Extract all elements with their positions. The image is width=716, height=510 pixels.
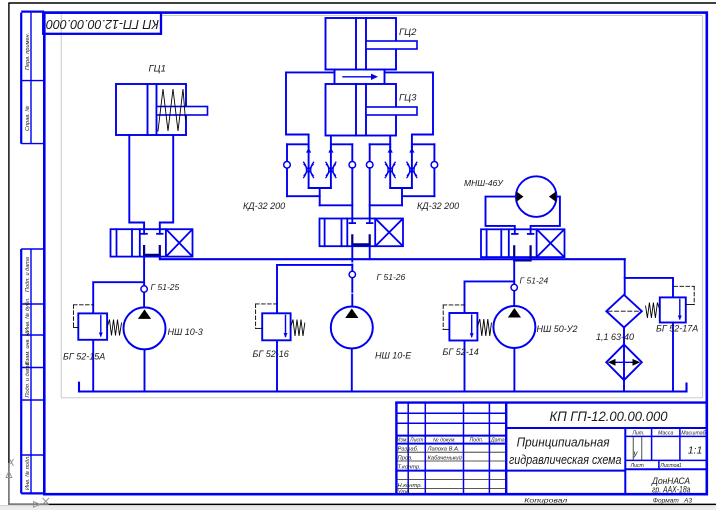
svg-text:Лапоха В.А.: Лапоха В.А. bbox=[427, 447, 460, 453]
svg-text:Г 51-24: Г 51-24 bbox=[520, 276, 549, 286]
svg-text:НШ 50-У2: НШ 50-У2 bbox=[537, 324, 578, 334]
node Г 51-26 bbox=[349, 271, 355, 277]
wire: middle valve left riser bbox=[351, 168, 353, 219]
filter 1,1 63-40 bbox=[606, 295, 642, 328]
wire: valve3 to pump НШ 50-У2 bbox=[513, 257, 515, 306]
wire: right loop from passage bbox=[385, 72, 434, 147]
wire: pump НШ 50-У2 to tank line bbox=[513, 348, 515, 392]
svg-text:Подп. и дата: Подп. и дата bbox=[25, 362, 31, 397]
svg-text:1: 1 bbox=[679, 463, 682, 469]
node circle on right block left line bbox=[366, 162, 373, 169]
svg-text:Г 51-26: Г 51-26 bbox=[377, 272, 406, 282]
svg-text:Подп. и дата: Подп. и дата bbox=[25, 257, 31, 292]
wire: valve2 to pump НШ 10-Е bbox=[351, 246, 353, 306]
relief valve БГ 52-16 bbox=[262, 265, 352, 392]
svg-text:Разраб.: Разраб. bbox=[398, 447, 419, 453]
svg-text:МНШ-46У: МНШ-46У bbox=[464, 178, 504, 188]
pump НШ 10-3 bbox=[124, 307, 166, 349]
wire: ГЦ1 right port to valve 1 bbox=[160, 135, 173, 229]
throttle symbols bbox=[385, 162, 417, 177]
svg-text:Масштаб: Масштаб bbox=[681, 430, 706, 436]
node circle on right block right line bbox=[431, 162, 438, 169]
svg-text:ГЦ2: ГЦ2 bbox=[399, 27, 417, 38]
svg-text:Формат: Формат bbox=[653, 498, 680, 505]
svg-text:КД-32 200: КД-32 200 bbox=[243, 201, 285, 211]
UCS icon bbox=[6, 459, 49, 507]
svg-text:КП ГП-12.00.00.000: КП ГП-12.00.00.000 bbox=[46, 17, 159, 31]
svg-text:гидравлическая схема: гидравлическая схема bbox=[509, 452, 622, 467]
passage between ГЦ2 and ГЦ3 with flow arrow bbox=[335, 70, 385, 85]
TITLE BLOCK bbox=[395, 403, 707, 505]
directional valve 1 (left) bbox=[111, 229, 193, 256]
svg-text:Дата: Дата bbox=[490, 437, 505, 443]
svg-text:БГ 52-17А: БГ 52-17А bbox=[656, 324, 698, 334]
check valve arrows bbox=[388, 148, 393, 153]
svg-text:гр. ААХ-18а: гр. ААХ-18а bbox=[652, 485, 691, 495]
svg-text:ГЦ1: ГЦ1 bbox=[149, 64, 166, 75]
relief valve БГ 52-17А bbox=[660, 297, 686, 391]
svg-text:Принципиальная: Принципиальная bbox=[517, 435, 610, 450]
gray content box bbox=[61, 14, 702, 398]
svg-text:№ докум.: № докум. bbox=[433, 437, 456, 443]
wire: branch to БГ 52-17А bbox=[625, 278, 673, 298]
wire: ГЦ3 right port down bbox=[389, 136, 391, 148]
svg-text:ГЦ3: ГЦ3 bbox=[399, 93, 417, 104]
wire: pump НШ 10-Е to tank line bbox=[351, 349, 353, 392]
svg-text:Кабаченький: Кабаченький bbox=[428, 454, 463, 461]
wire: middle valve right riser bbox=[369, 168, 371, 219]
cylinder ГЦ2 bbox=[326, 18, 418, 70]
svg-text:БГ 52-14: БГ 52-14 bbox=[443, 347, 479, 357]
check valve arrows bbox=[306, 148, 311, 153]
svg-text:1:1: 1:1 bbox=[688, 445, 703, 457]
wire: main line branch to filter bbox=[624, 259, 626, 295]
svg-text:БГ 52-16: БГ 52-16 bbox=[253, 349, 289, 359]
node circle on left block left line bbox=[284, 162, 291, 169]
svg-text:Пров.: Пров. bbox=[398, 455, 413, 461]
directional valve 3 (right) bbox=[481, 229, 565, 257]
cylinder ГЦ1 bbox=[116, 84, 208, 135]
svg-text:КД-32 200: КД-32 200 bbox=[417, 201, 459, 211]
relief valve БГ 52-14 bbox=[449, 281, 514, 391]
hydraulic motor МНШ-46У bbox=[486, 176, 560, 229]
svg-text:Лист: Лист bbox=[409, 437, 424, 443]
svg-text:Масса: Масса bbox=[658, 430, 673, 436]
relief valve БГ 52-15А bbox=[78, 282, 144, 391]
svg-text:Изм.: Изм. bbox=[397, 437, 408, 443]
cylinder ГЦ3 bbox=[326, 84, 418, 136]
wire: ГЦ1 left port to valve 1 bbox=[129, 135, 144, 229]
svg-text:Г 51-25: Г 51-25 bbox=[151, 282, 180, 292]
svg-text:Т.контр.: Т.контр. bbox=[398, 464, 421, 470]
svg-text:КП ГП-12.00.00.000: КП ГП-12.00.00.000 bbox=[550, 409, 668, 424]
top-left stamp box bbox=[43, 13, 161, 34]
cooler bbox=[606, 345, 642, 381]
throttle symbols bbox=[304, 162, 336, 177]
wire: valve1 to pump НШ 10-3 bbox=[143, 257, 145, 308]
svg-text:Копировал: Копировал bbox=[524, 498, 567, 505]
wire: valve2 right leg to main line bbox=[369, 246, 371, 259]
wire: filter to cooler bbox=[623, 328, 625, 345]
svg-text:Инв. № подл.: Инв. № подл. bbox=[25, 455, 31, 490]
left margin column: bottom group bbox=[20, 249, 22, 493]
svg-text:Листов: Листов bbox=[659, 463, 679, 469]
wire: pump НШ 10-3 to tank line bbox=[144, 349, 146, 391]
pump НШ 50-У2 bbox=[493, 306, 535, 348]
wire: left loop from passage bbox=[286, 72, 335, 147]
valve block КД-32 200 (right) bbox=[370, 144, 435, 205]
left margin texts bbox=[25, 33, 31, 490]
svg-text:Лит.: Лит. bbox=[631, 430, 644, 436]
svg-text:Инв. № дубл.: Инв. № дубл. bbox=[25, 298, 31, 332]
svg-text:Подп.: Подп. bbox=[469, 437, 483, 443]
svg-text:НШ 10-3: НШ 10-3 bbox=[168, 327, 203, 337]
svg-text:БГ 52-15А: БГ 52-15А bbox=[63, 352, 105, 362]
left margin column: top group bbox=[20, 13, 22, 144]
directional valve 2 (middle) bbox=[320, 219, 404, 247]
wire: cooler to tank line bbox=[623, 380, 625, 391]
wire: ГЦ3 left port down bbox=[330, 136, 332, 148]
svg-text:Лист: Лист bbox=[630, 463, 645, 469]
svg-text:1,1 63-40: 1,1 63-40 bbox=[596, 332, 634, 342]
svg-text:Перв. примен.: Перв. примен. bbox=[25, 33, 31, 70]
svg-text:А3: А3 bbox=[683, 498, 692, 505]
pump НШ 10-Е bbox=[331, 307, 373, 349]
wire: tank return line bbox=[79, 383, 687, 392]
valve block КД-32 200 (left) bbox=[287, 144, 352, 205]
svg-text:Н.контр.: Н.контр. bbox=[398, 483, 423, 489]
svg-text:Утв.: Утв. bbox=[397, 490, 411, 496]
svg-text:НШ 10-Е: НШ 10-Е bbox=[375, 351, 412, 361]
node circle on left block right line bbox=[349, 162, 356, 169]
svg-text:Взам. инв. №: Взам. инв. № bbox=[25, 330, 31, 365]
svg-text:Справ. №: Справ. № bbox=[25, 106, 31, 131]
node Г 51-25 bbox=[141, 286, 147, 292]
node Г 51-24 bbox=[511, 284, 517, 290]
black page border bbox=[8, 2, 716, 4]
wire: main pressure line bbox=[160, 257, 625, 260]
